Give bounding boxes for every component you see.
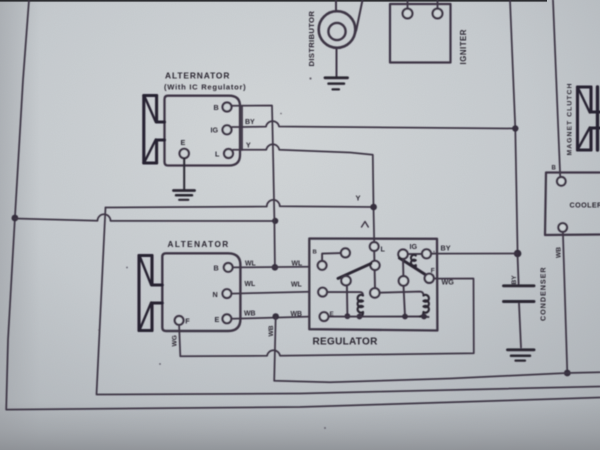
wire: pivot to IG contact	[408, 253, 422, 255]
node: WB bottom junction	[564, 370, 571, 377]
svg-text:Y: Y	[246, 142, 251, 149]
terminal B of U2	[224, 263, 233, 272]
svg-text:E: E	[215, 315, 220, 324]
svg-text:WL: WL	[245, 281, 256, 288]
regulator terminal row3 E	[320, 312, 329, 321]
pivot circle relay2	[398, 250, 407, 259]
terminal N of U2	[223, 289, 232, 298]
wire: E internal bus	[329, 316, 429, 319]
svg-text:B: B	[313, 250, 317, 256]
node: coil2 bottom	[421, 314, 427, 320]
svg-text:WL: WL	[292, 260, 303, 267]
wire: relay2 vertical legs	[403, 259, 405, 317]
pivot circle relay1	[341, 276, 350, 285]
pin WB of cooler	[558, 223, 567, 232]
svg-text:ALTENATOR: ALTENATOR	[168, 240, 230, 249]
node: relay2 leg bottom	[402, 314, 408, 320]
wire: cooler WB down to bottom bus	[563, 232, 567, 373]
igniter box	[390, 4, 451, 63]
terminal E of U1	[180, 149, 189, 158]
regulator box	[309, 239, 437, 331]
regulator terminal L	[370, 242, 379, 251]
wire: regulator BY output	[437, 253, 518, 255]
svg-text:N: N	[213, 290, 218, 299]
wire: IG to edge	[431, 253, 437, 255]
wire: big loop box top edge (line1)	[106, 200, 374, 208]
wire: magnet clutch feed vertical	[553, 0, 560, 177]
wire: igniter pin stub 2	[437, 0, 439, 9]
svg-text:CONDENSER: CONDENSER	[539, 267, 548, 321]
node: BY condenser junction	[514, 250, 522, 258]
node: WB row3 junction	[272, 313, 279, 320]
wire: distributor diagonal	[355, 0, 362, 33]
svg-text:F: F	[185, 317, 190, 326]
svg-text:L: L	[381, 245, 386, 254]
svg-text:IG: IG	[211, 126, 219, 135]
svg-text:DISTRIBUTOR: DISTRIBUTOR	[307, 11, 316, 67]
svg-text:(With IC Regulator): (With IC Regulator)	[164, 82, 246, 91]
svg-text:WB: WB	[556, 247, 563, 258]
wire: WL row2	[231, 292, 309, 294]
node: coil1 bottom	[357, 314, 363, 320]
svg-text:IG: IG	[410, 242, 418, 251]
armature relay2	[399, 258, 428, 277]
svg-text:WL: WL	[291, 281, 302, 288]
svg-text:WB: WB	[268, 325, 275, 336]
svg-text:F: F	[431, 267, 435, 274]
wire: Y from upper alternator L down to Y junction	[233, 144, 374, 242]
pin B of cooler	[557, 177, 566, 186]
wire: regulator WG output loop to lower alternator F	[179, 279, 474, 357]
wire: BY from upper alternator IG to long vertical	[232, 121, 515, 128]
regulator terminal row2	[318, 288, 327, 297]
connector caret	[362, 222, 369, 228]
svg-text:MAGNET CLUTCH: MAGNET CLUTCH	[567, 83, 574, 156]
ground of condenser	[508, 350, 535, 361]
svg-text:WG: WG	[172, 335, 179, 346]
svg-text:L: L	[215, 149, 220, 158]
distributor	[319, 11, 356, 48]
svg-text:BY: BY	[511, 275, 518, 285]
wire: WB down to bottom bus	[274, 317, 600, 383]
svg-text:B: B	[214, 264, 219, 273]
regulator terminal row1	[318, 261, 327, 270]
pin 1 of igniter	[403, 9, 413, 19]
contact F relay2	[425, 274, 434, 283]
armature relay1	[338, 264, 371, 279]
pin 2 of igniter	[433, 9, 443, 19]
svg-text:COOLER: COOLER	[570, 201, 600, 210]
wire: WB row3	[231, 317, 309, 319]
wire: U1 terminal bracket	[241, 106, 243, 150]
terminal L of U1	[224, 149, 233, 158]
svg-text:Y: Y	[356, 194, 361, 203]
svg-text:WL: WL	[245, 260, 256, 267]
svg-text:E: E	[181, 138, 186, 147]
contact circle chain c3	[370, 288, 379, 297]
wire: horizontal from left border to x272 vertical (line2)	[15, 214, 276, 221]
wire: igniter pin stub 1	[407, 0, 409, 9]
wire: distributor to ground	[336, 48, 338, 77]
wire: big loop left edge + bottom edge	[97, 208, 600, 395]
wire: x272 vertical (upper alt B down to WL row1)	[232, 106, 275, 268]
node: Y junction	[370, 204, 377, 211]
svg-text:B: B	[214, 103, 219, 112]
svg-text:REGULATOR: REGULATOR	[313, 337, 379, 348]
svg-text:WG: WG	[442, 278, 455, 287]
coil relay1	[358, 295, 363, 317]
node: BY upper junction	[512, 125, 518, 131]
contact circle chain c2	[370, 261, 379, 270]
alternator U2 body	[162, 253, 240, 331]
terminal F of U2	[175, 316, 184, 325]
wire: long vertical to condenser node	[510, 0, 518, 254]
node: junction line2 x272	[272, 218, 278, 224]
coil relay2 lower	[420, 295, 429, 317]
svg-text:ALTERNATOR: ALTERNATOR	[165, 71, 230, 81]
contact B relay1	[341, 248, 350, 257]
dust specks	[98, 77, 435, 429]
ground of U1	[174, 158, 195, 200]
wire: c3 to coil2	[380, 292, 424, 296]
terminal IG of U1	[223, 125, 232, 134]
terminal E of U2	[223, 314, 232, 323]
node: junction x272 WL row1	[272, 264, 279, 271]
terminal B of U1	[223, 103, 232, 112]
svg-text:IGNITER: IGNITER	[459, 29, 468, 64]
svg-text:WB: WB	[291, 311, 303, 318]
cooler box	[545, 173, 600, 236]
wire: F to edge	[434, 277, 437, 279]
contact IG relay2	[422, 249, 431, 258]
wire: WL row1	[233, 266, 310, 269]
pulley of U2	[139, 256, 162, 331]
alternator U1 (with IC regulator) body	[165, 96, 241, 166]
magnet clutch pulley	[578, 87, 600, 150]
coil relay2 upper	[411, 255, 416, 267]
wire: L chain vertical	[373, 251, 376, 288]
wire: row2 to coil1	[327, 292, 363, 295]
ground of distributor	[325, 78, 348, 90]
moving contact relay2	[399, 276, 409, 286]
wire: row1 to B contact	[322, 253, 341, 261]
pulley of U1	[144, 96, 165, 164]
node: pivot leg bottom	[345, 313, 351, 319]
svg-text:B: B	[552, 165, 557, 171]
wire: pivot leg down	[346, 285, 349, 316]
node: left border junction	[12, 215, 19, 222]
svg-text:WB: WB	[244, 310, 256, 317]
wire: distributor top	[335, 0, 337, 11]
condenser	[518, 257, 519, 284]
svg-text:BY: BY	[441, 244, 451, 253]
svg-text:BY: BY	[245, 119, 255, 126]
